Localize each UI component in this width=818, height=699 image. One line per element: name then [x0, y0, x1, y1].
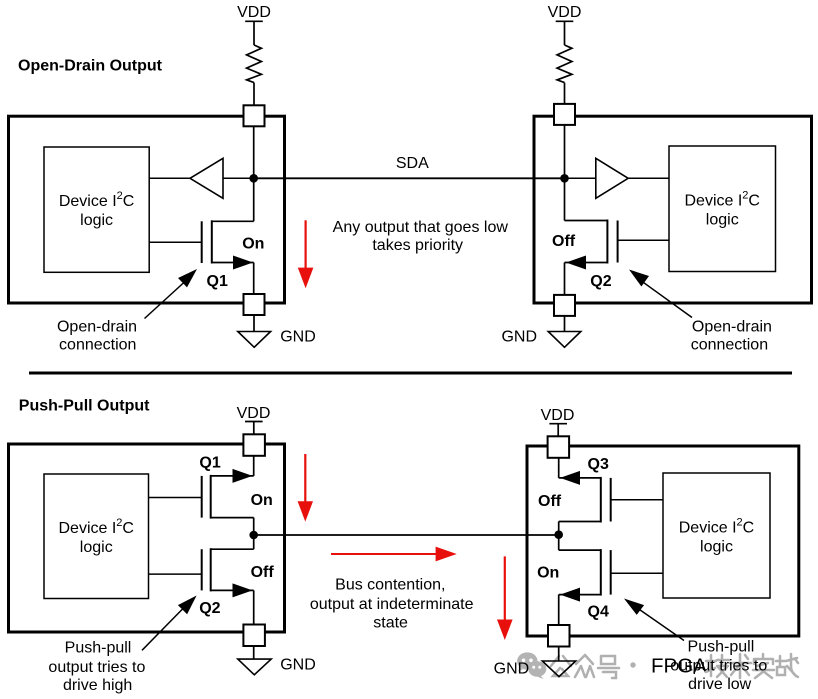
wire Q2 source to pin [253, 590, 255, 624]
red arrow: sink direction (bottom-right) [497, 556, 513, 640]
wire logic to Q3 gate [611, 499, 663, 501]
transistor Q3 (push-pull high-side, mirrored) [559, 471, 611, 523]
watermark char 术 [730, 654, 751, 678]
watermark char 号 [598, 656, 619, 678]
svg-text:Q2: Q2 [590, 273, 611, 290]
wire pin to SDA node [564, 125, 566, 178]
svg-text:state: state [373, 615, 408, 632]
watermark wechat icon [517, 652, 537, 669]
svg-text:logic: logic [700, 539, 733, 556]
wire SDA bus [254, 177, 565, 179]
svg-text:GND: GND [280, 329, 316, 346]
wire logic to Q1 gate [149, 497, 202, 499]
watermark char 公 [551, 656, 571, 676]
svg-text:VDD: VDD [237, 4, 271, 21]
wire node to Q2 drain [253, 535, 255, 549]
device box (top-left) [9, 116, 285, 303]
watermark char 战 [776, 654, 798, 677]
node: output junction (bottom-left) [249, 531, 258, 540]
wire VDD to resistor [564, 21, 566, 45]
svg-text:Q4: Q4 [588, 603, 609, 620]
svg-text:logic: logic [80, 539, 113, 556]
watermark char 众 [575, 655, 594, 677]
wire buffer to node [223, 177, 254, 179]
svg-text:GND: GND [280, 656, 316, 673]
wire node to Q1 drain [253, 178, 255, 221]
svg-text:Any output that goes low: Any output that goes low [333, 219, 509, 236]
svg-text:On: On [251, 492, 273, 509]
VDD rail bar [556, 20, 574, 22]
transistor Q1 (push-pull high-side) [202, 469, 254, 519]
watermark: WeChat public account "FPGA" (grey, multiply) [517, 652, 798, 679]
red arrow: bus contention (horizontal) [331, 547, 457, 562]
transistor Q1 (open-drain NMOS) [202, 220, 254, 269]
wire node to buffer [565, 177, 596, 179]
leader arrow to Q2 push-pull note [142, 608, 184, 651]
node: SDA junction (left) [249, 174, 258, 183]
wire Q4 source to pin [558, 595, 560, 625]
ground (top-right) [548, 332, 581, 348]
wire pin to ground [253, 646, 255, 659]
wire contended bus [254, 534, 559, 536]
pin pad VDD (bottom-left device) [243, 434, 265, 456]
Device I2C logic box (bottom-left) [44, 474, 149, 599]
wire node to Q2 drain [564, 178, 566, 220]
svg-text:output at indeterminate: output at indeterminate [310, 596, 474, 613]
pin pad GND (top-left device) [244, 294, 265, 315]
wire buffer to logic [628, 177, 669, 179]
svg-text:logic: logic [80, 212, 113, 229]
leader arrow to Q4 push-pull note [638, 609, 684, 641]
svg-text:connection: connection [691, 336, 768, 353]
svg-text:Open-drain: Open-drain [692, 319, 772, 336]
wire Q1 source to pin [253, 263, 255, 295]
leader arrow to Q1 open-drain connection [145, 282, 186, 319]
svg-text:On: On [537, 564, 559, 581]
svg-text:Device I2C: Device I2C [679, 516, 754, 536]
Device I2C logic box (top-right) [669, 146, 776, 272]
wire logic to Q2 gate [618, 239, 669, 241]
svg-text:Off: Off [552, 233, 576, 250]
svg-text:On: On [242, 236, 264, 253]
device box (top-right) [534, 116, 812, 303]
watermark middle dot [630, 662, 635, 667]
svg-text:Open-Drain Output: Open-Drain Output [18, 57, 163, 74]
Device I2C logic box (bottom-right) [663, 473, 770, 598]
wire logic to buffer [149, 177, 190, 179]
svg-text:VDD: VDD [237, 405, 271, 422]
ground (bottom-right) [542, 661, 575, 677]
pin pad GND (top-right device) [554, 295, 575, 316]
wire pin to ground [253, 315, 255, 332]
wire logic to Q4 gate [611, 572, 663, 574]
svg-text:Push-Pull Output: Push-Pull Output [19, 398, 150, 415]
svg-text:VDD: VDD [541, 407, 575, 424]
wire pin to Q1 source [253, 456, 255, 476]
device box (bottom-left) [9, 444, 285, 632]
wire pin to Q3 source [558, 458, 560, 478]
Device I2C logic box (top-left) [44, 147, 149, 272]
pin pad VDD (top-right device) [554, 104, 575, 125]
red arrow: current direction (top) [298, 220, 314, 288]
separator line [29, 372, 792, 375]
svg-text:Bus contention,: Bus contention, [335, 576, 445, 593]
wire Q1 drain to node [253, 518, 255, 535]
svg-text:GND: GND [501, 329, 537, 346]
leader arrow to Q2 open-drain connection [641, 281, 692, 318]
wire resistor to pin [564, 83, 566, 104]
pin pad VDD (bottom-right device) [548, 436, 570, 458]
svg-text:Off: Off [251, 564, 275, 581]
svg-text:Push-pull: Push-pull [65, 640, 132, 657]
watermark char 技 [706, 655, 729, 677]
wire VDD to resistor [253, 21, 255, 45]
wire pin to SDA node [253, 126, 255, 178]
wire pin to ground [564, 316, 566, 332]
svg-text:drive high: drive high [63, 677, 132, 694]
svg-text:Push-pull: Push-pull [688, 639, 755, 656]
device box (bottom-right) [527, 446, 799, 636]
transistor Q2 (push-pull low-side) [202, 548, 254, 597]
svg-text:Q1: Q1 [199, 455, 220, 472]
wire VDD to pin [557, 424, 559, 437]
svg-text:Device I2C: Device I2C [685, 190, 760, 210]
wire logic to Q2 gate [149, 573, 202, 575]
pin pad GND (bottom-left device) [243, 625, 265, 647]
svg-text:Off: Off [538, 493, 562, 510]
wire resistor to pin [253, 83, 255, 106]
svg-text:VDD: VDD [548, 4, 582, 21]
svg-text:Q1: Q1 [207, 273, 228, 290]
wire Q2 source to pin [564, 263, 566, 295]
svg-text:takes priority: takes priority [372, 237, 463, 254]
ground (top-left) [238, 332, 271, 348]
svg-text:Open-drain: Open-drain [57, 319, 137, 336]
wire Q3 drain to node [558, 522, 560, 535]
pin pad GND (bottom-right device) [548, 625, 570, 647]
wire VDD to pin [253, 422, 255, 435]
VDD rail bar [549, 423, 567, 425]
svg-text:Device I2C: Device I2C [59, 517, 134, 537]
wire pin to ground [558, 647, 560, 662]
transistor Q4 (push-pull low-side, mirrored) [559, 549, 611, 602]
transistor Q2 (open-drain NMOS, mirrored) [565, 220, 618, 270]
svg-text:connection: connection [59, 336, 136, 353]
ground (bottom-left) [238, 659, 271, 675]
pull-up resistor (left) [247, 45, 262, 83]
pull-up resistor (right) [557, 45, 572, 83]
svg-text:output tries to: output tries to [48, 659, 145, 676]
pin pad VDD (top-left device) [244, 105, 265, 126]
svg-text:logic: logic [706, 212, 739, 229]
node: output junction (bottom-right) [554, 530, 563, 539]
input buffer (top-left, points left) [190, 158, 223, 198]
svg-text:Q3: Q3 [588, 456, 609, 473]
VDD rail bar [245, 421, 263, 423]
node: SDA junction (right) [560, 174, 569, 183]
watermark char 实 [753, 654, 774, 678]
wire logic to Q1 gate [149, 241, 202, 243]
svg-text:FPGA: FPGA [651, 655, 707, 678]
VDD rail bar [245, 20, 263, 22]
svg-text:Q2: Q2 [199, 600, 220, 617]
input buffer (top-right, points right) [596, 158, 628, 198]
svg-text:Device I2C: Device I2C [59, 190, 134, 210]
wire node to Q4 drain [558, 535, 560, 550]
svg-text:drive low: drive low [688, 676, 752, 693]
svg-text:SDA: SDA [396, 155, 429, 172]
red arrow: drive direction (bottom-left) [298, 454, 313, 522]
